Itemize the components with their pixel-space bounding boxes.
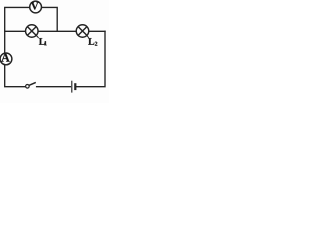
lamp L2 cross [78, 27, 89, 38]
ammeter A1 circle [0, 53, 12, 65]
wire right vertical and bottom to battery positive [77, 31, 106, 86]
switch pivot contact [26, 85, 30, 89]
wire bottom between switch and battery [37, 86, 71, 88]
label L1 letter L [39, 38, 45, 45]
voltmeter letter V [31, 2, 39, 9]
ammeter letter A [1, 54, 9, 62]
voltmeter U1 circle [30, 1, 42, 13]
battery cell: long thin positive bar [71, 81, 73, 93]
wire lamp row L1-L2 [5, 30, 105, 32]
label L2 subscript 2 [95, 42, 97, 46]
wire top row with voltmeter branch corner [5, 7, 58, 31]
switch lever (open) [29, 82, 36, 85]
label L2 letter L [88, 38, 94, 45]
battery cell: short thick negative bar [74, 83, 76, 90]
lamp L1 circle [26, 25, 39, 38]
lamp L2 circle [76, 25, 89, 38]
label L1 subscript 1 [44, 41, 46, 45]
wire left vertical ammeter to bottom-left corner and to switch [5, 65, 25, 87]
wire left vertical lamp row to ammeter [4, 31, 6, 53]
lamp L1 cross [27, 27, 38, 38]
